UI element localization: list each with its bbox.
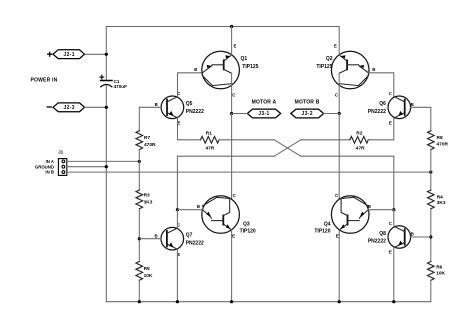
wire R4 to R6 <box>430 210 432 262</box>
wire Q7 emitter <box>176 249 178 302</box>
wire Q5 base <box>139 106 161 108</box>
svg-text:B: B <box>155 234 158 239</box>
wire Q3 base <box>177 209 202 211</box>
svg-text:J2-3: J2-3 <box>63 105 74 111</box>
svg-text:R5: R5 <box>144 266 150 272</box>
resistor R7 <box>136 131 156 150</box>
svg-text:TIP120: TIP120 <box>314 229 330 235</box>
junction IN A / R7 R3 <box>138 160 141 163</box>
wire R3 to R5 <box>138 210 140 262</box>
wire Q2 base to Q6 collector <box>369 73 394 97</box>
svg-text:B: B <box>411 102 414 107</box>
svg-text:R1: R1 <box>206 130 212 136</box>
wire R6 to bottom rail <box>430 280 432 301</box>
connector J2-1 <box>48 50 85 59</box>
svg-text:E: E <box>389 250 392 255</box>
wire J3-1 to motor A node <box>232 113 248 115</box>
svg-text:MOTOR A: MOTOR A <box>252 99 277 105</box>
wire J1 pin IN B <box>67 171 431 173</box>
svg-text:B: B <box>197 204 200 209</box>
svg-text:C: C <box>389 221 393 226</box>
svg-text:Q8: Q8 <box>379 231 386 237</box>
wire J2-1 to rail <box>85 53 106 55</box>
wire Q2 collector down to motor B <box>338 73 340 113</box>
connector J3-1 <box>247 109 280 118</box>
resistor R1 <box>201 130 220 151</box>
svg-text:E: E <box>234 43 237 48</box>
resistor R4 <box>428 190 446 209</box>
wire Q4 emitter <box>338 230 340 302</box>
wire J1 pin IN A <box>67 160 140 162</box>
junction Q3 base / Q7 collector <box>176 208 179 211</box>
junction Q3 emitter bottom <box>230 300 233 303</box>
resistor R8 <box>428 131 449 150</box>
svg-text:GROUND: GROUND <box>35 164 54 169</box>
svg-text:PN2222: PN2222 <box>186 240 204 246</box>
svg-text:PN2222: PN2222 <box>368 239 386 245</box>
wire Q2 emitter <box>338 27 340 56</box>
wire J2-3 to rail <box>85 106 106 108</box>
svg-text:B: B <box>411 232 414 237</box>
svg-text:C: C <box>233 193 237 198</box>
svg-text:J2-1: J2-1 <box>63 52 74 58</box>
connector J1 <box>35 150 67 176</box>
svg-text:Q6: Q6 <box>379 101 386 107</box>
wire left rail upper <box>105 27 107 81</box>
wire motor B node down to Q4 <box>338 114 340 199</box>
junction J2-1 node <box>105 53 108 56</box>
wire R1 to crossover <box>219 139 274 141</box>
svg-text:MOTOR B: MOTOR B <box>295 99 320 105</box>
svg-text:3K3: 3K3 <box>437 200 446 206</box>
svg-text:C: C <box>335 93 339 98</box>
junction motor A node <box>230 112 233 115</box>
wire Q8 base to right rail <box>411 236 431 238</box>
svg-text:B: B <box>368 204 371 209</box>
svg-text:470uF: 470uF <box>114 84 127 89</box>
svg-text:Q5: Q5 <box>186 101 193 107</box>
svg-text:C: C <box>389 91 393 96</box>
transistor Q2 <box>316 43 375 97</box>
svg-text:470R: 470R <box>437 141 449 147</box>
wire R8 to R4 <box>430 150 432 190</box>
wire R7 to R3 <box>138 150 140 190</box>
svg-text:R4: R4 <box>437 194 443 200</box>
wire J3-2 to motor B node <box>324 113 340 115</box>
svg-text:47R: 47R <box>206 146 215 152</box>
wire motor A node down to Q3 <box>231 114 233 199</box>
wire crossover diagonal up <box>274 140 301 156</box>
wire Q8 collector <box>393 210 395 227</box>
svg-text:47R: 47R <box>356 145 365 151</box>
junction IN B / right rail <box>429 171 432 174</box>
wire Q8 emitter <box>393 248 395 302</box>
transistor Q3 <box>197 193 256 239</box>
transistor Q8 <box>368 221 414 255</box>
svg-text:R7: R7 <box>144 135 150 141</box>
svg-text:E: E <box>336 233 339 238</box>
svg-text:TIP125: TIP125 <box>242 64 258 70</box>
svg-text:PN2222: PN2222 <box>186 109 204 115</box>
resistor R6 <box>428 262 446 281</box>
svg-text:B: B <box>194 67 197 72</box>
wire R5 to bottom rail <box>138 280 140 301</box>
wire Q7 collector <box>176 210 178 228</box>
svg-text:B: B <box>372 67 375 72</box>
transistor Q1 <box>194 43 259 97</box>
wire crossover lower left <box>176 156 178 210</box>
svg-text:C: C <box>335 193 339 198</box>
wire top rail <box>106 26 339 28</box>
wire right drop to Q4 base node <box>393 156 395 210</box>
wire Q3 emitter <box>231 230 233 302</box>
wire Q1 emitter <box>231 27 233 56</box>
wire Q5 emitter to R1 <box>178 139 201 141</box>
svg-text:J3-2: J3-2 <box>301 111 312 117</box>
wire crossover horizontal left <box>177 155 274 157</box>
svg-text:E: E <box>232 233 235 238</box>
wire crossover to right drop <box>301 155 394 157</box>
wire Q5 emitter down <box>177 118 179 140</box>
svg-text:R2: R2 <box>356 130 362 136</box>
svg-text:R8: R8 <box>437 135 443 141</box>
wire Q6 base to right rail <box>411 106 431 108</box>
svg-text:Q7: Q7 <box>186 233 193 239</box>
transistor Q4 <box>314 193 371 239</box>
svg-text:3K3: 3K3 <box>144 200 153 206</box>
junction top rail / Q1 emitter <box>230 25 233 28</box>
svg-text:10K: 10K <box>144 273 153 279</box>
svg-text:IN A: IN A <box>46 159 54 164</box>
junction Q8 base node <box>429 235 432 238</box>
svg-text:E: E <box>389 120 392 125</box>
wire Q1 collector down to motor A <box>231 73 233 113</box>
svg-text:J3-1: J3-1 <box>258 111 269 117</box>
svg-text:POWER IN: POWER IN <box>31 78 58 84</box>
resistor R2 <box>350 130 369 151</box>
wire J1 pin GROUND <box>67 166 107 168</box>
junction Q4 emitter bottom <box>338 300 341 303</box>
wire Q5 collector to Q1 base <box>178 73 203 97</box>
svg-text:B: B <box>155 102 158 107</box>
resistor R5 <box>136 262 153 281</box>
wire left bias column upper <box>138 107 140 131</box>
svg-text:R3: R3 <box>144 192 150 198</box>
connector J3-2 <box>291 109 324 118</box>
resistor R3 <box>136 190 153 209</box>
transistor Q7 <box>155 223 204 257</box>
junction Q7 base node <box>138 237 141 240</box>
wire crossover to R2 <box>301 139 350 141</box>
connector J2-3 <box>47 103 84 112</box>
wire bottom rail <box>106 301 431 303</box>
svg-text:PN2222: PN2222 <box>368 109 386 115</box>
wire Q4 base <box>368 209 394 211</box>
svg-text:C: C <box>232 93 236 98</box>
svg-text:R6: R6 <box>436 265 442 271</box>
wire left rail lower <box>105 85 107 302</box>
junction R5 bottom <box>138 300 141 303</box>
transistor Q5 <box>155 91 204 125</box>
svg-text:Q2: Q2 <box>326 56 333 62</box>
wire crossover diagonal down <box>274 140 301 156</box>
wire R2 to Q6 emitter <box>368 118 394 140</box>
wire right rail upper <box>430 107 432 131</box>
svg-text:TIP125: TIP125 <box>316 64 332 70</box>
svg-text:J1: J1 <box>58 150 63 155</box>
svg-text:470R: 470R <box>144 142 156 148</box>
wire Q7 base <box>139 238 161 240</box>
junction Q8 emitter bottom <box>392 300 395 303</box>
junction Q7 emitter bottom <box>176 300 179 303</box>
svg-text:E: E <box>334 43 337 48</box>
junction Q4 base / Q8 collector <box>392 208 395 211</box>
junction J2-3 node <box>105 106 108 109</box>
junction GROUND / left rail <box>105 165 108 168</box>
svg-text:10K: 10K <box>436 271 445 277</box>
svg-text:TIP120: TIP120 <box>240 229 256 235</box>
svg-text:IN B: IN B <box>45 170 54 175</box>
capacitor C1 <box>100 75 127 89</box>
svg-text:Q4: Q4 <box>324 221 331 227</box>
svg-text:Q3: Q3 <box>243 221 250 227</box>
transistor Q6 <box>368 91 414 125</box>
junction motor B node <box>338 112 341 115</box>
svg-text:Q1: Q1 <box>241 56 248 62</box>
